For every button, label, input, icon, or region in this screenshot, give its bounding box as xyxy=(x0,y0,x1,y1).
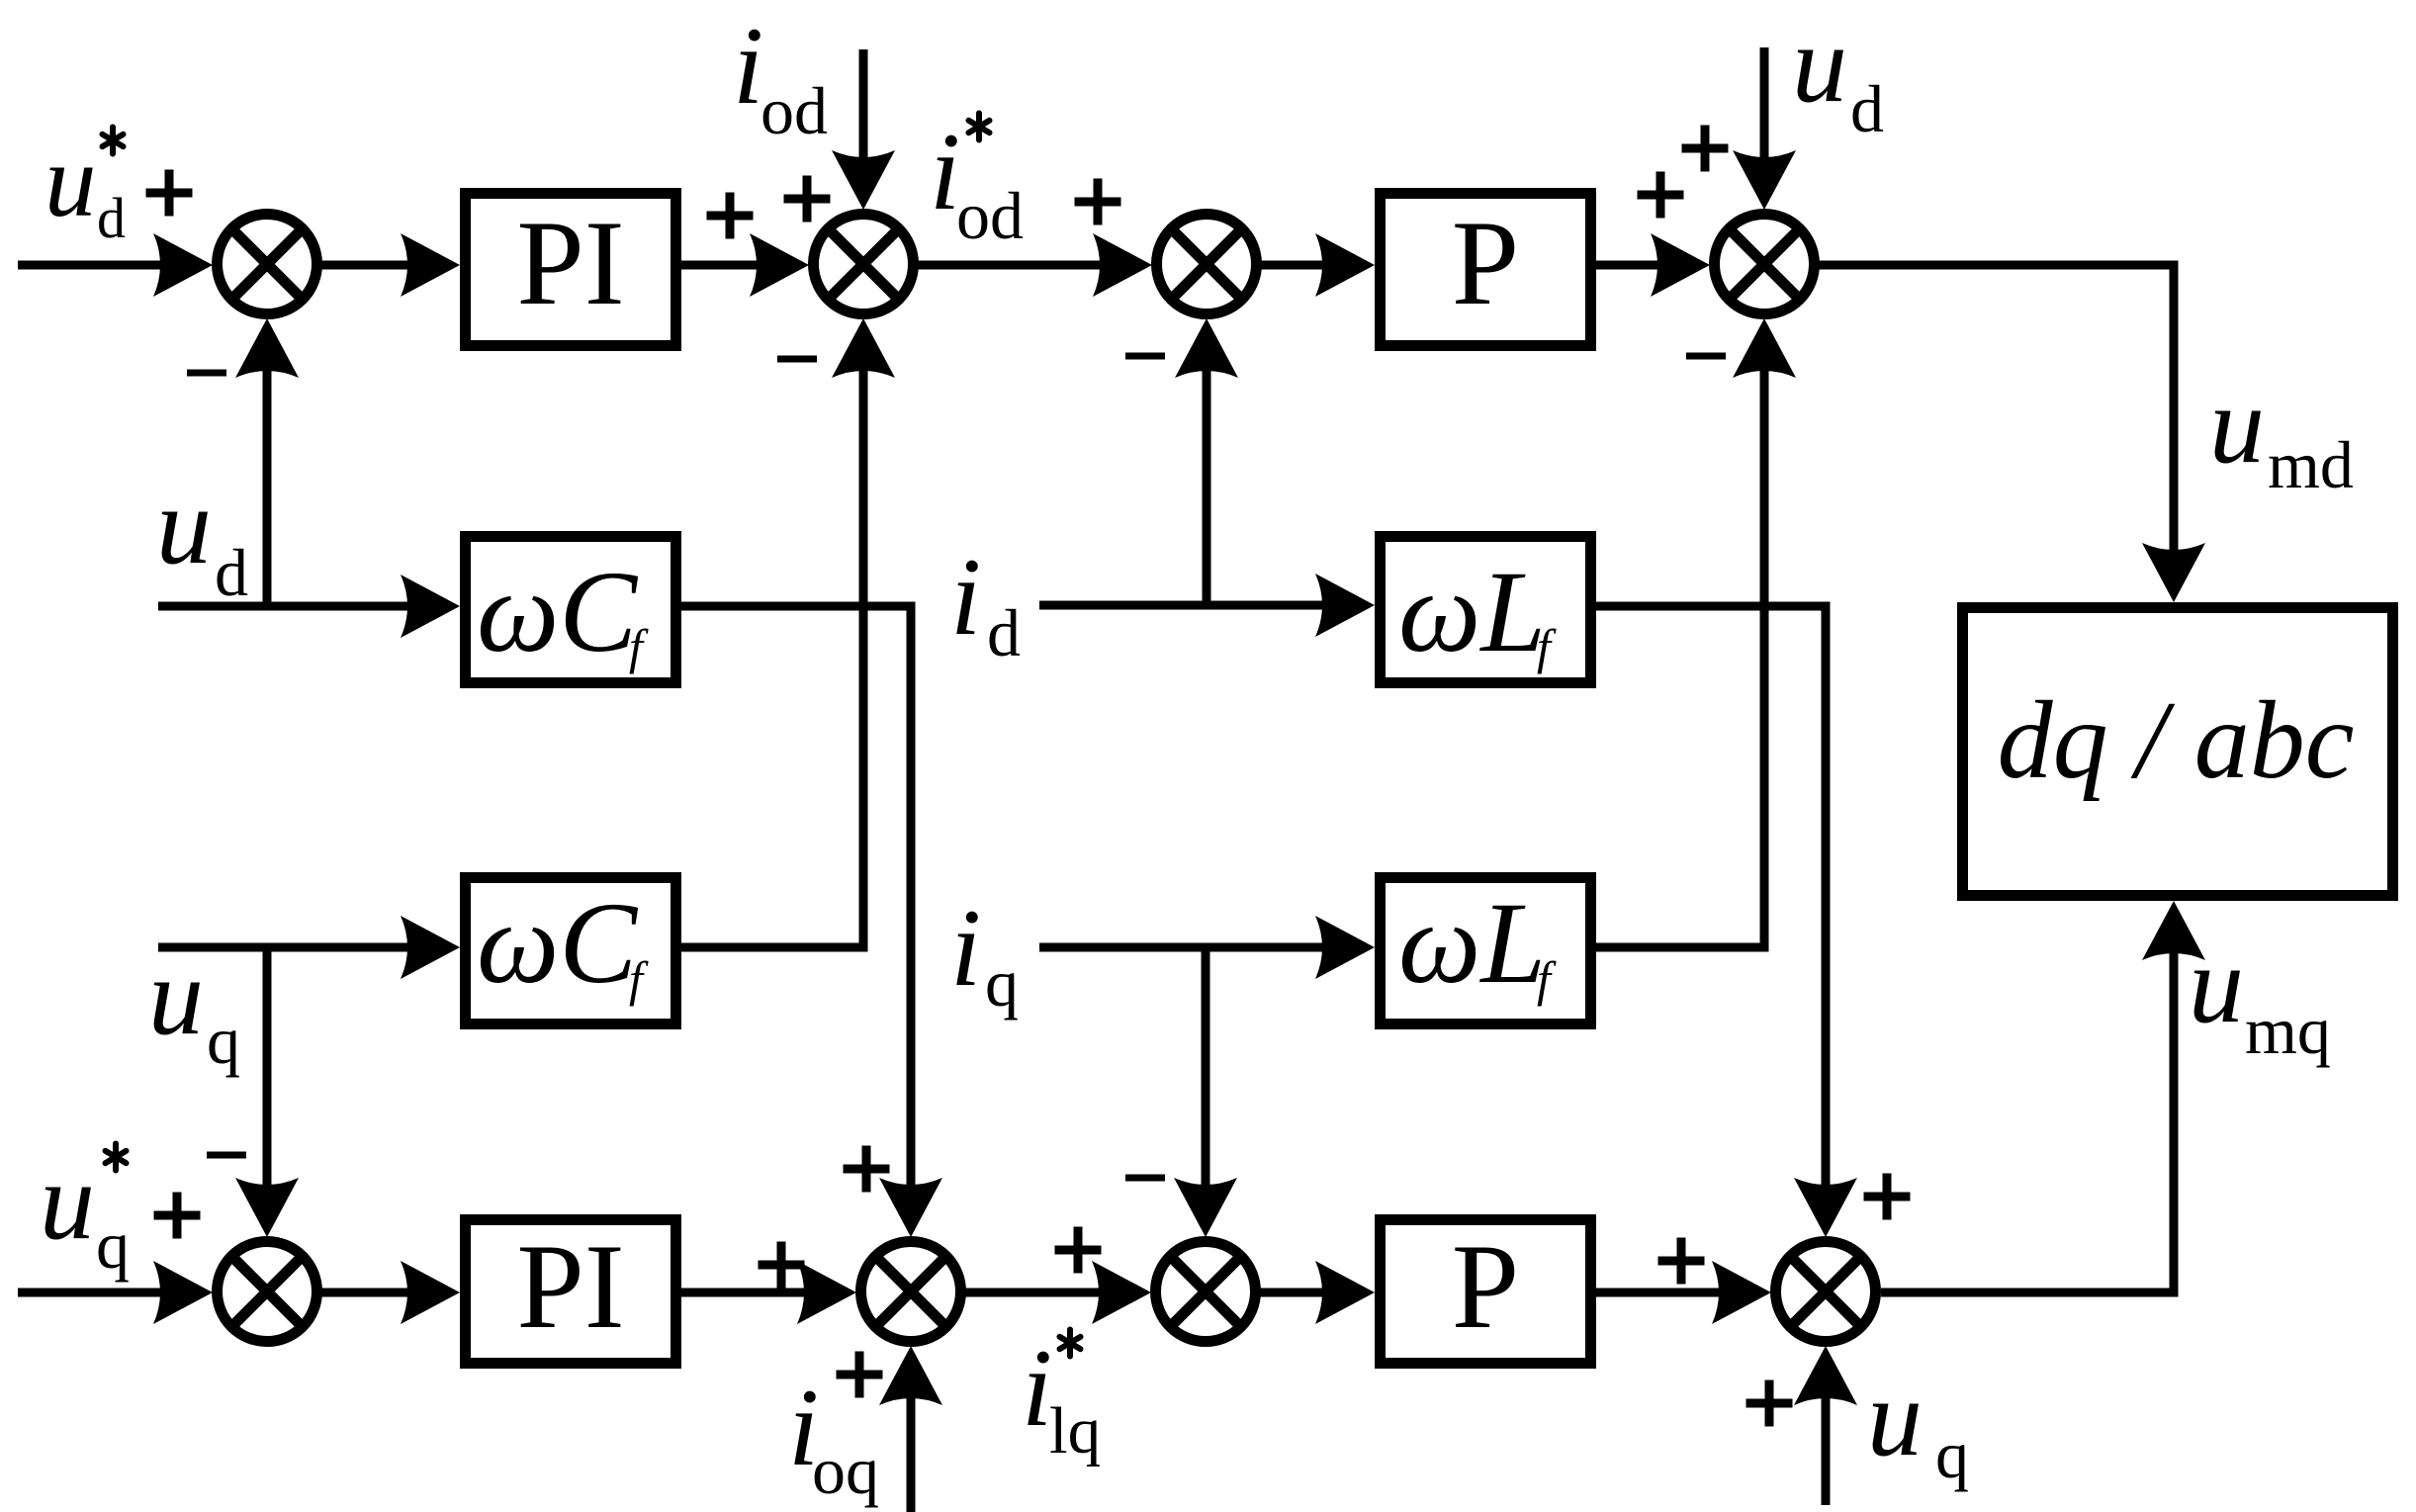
svg-text:P: P xyxy=(1452,1218,1519,1354)
svg-text:od: od xyxy=(956,178,1024,253)
block P (q-axis current controller) xyxy=(1381,1218,1591,1364)
plus sign at i_od input into J2 xyxy=(784,176,831,222)
plus sign at i_oq input into J5 xyxy=(837,1352,883,1398)
wire: u_q* input into J4 xyxy=(18,1261,213,1324)
summing junction J3 xyxy=(1157,215,1257,314)
summing junction J4 xyxy=(218,1242,317,1342)
plus sign at lower P output into J7 xyxy=(1658,1238,1705,1285)
svg-text:od: od xyxy=(761,73,828,148)
label i_d xyxy=(950,536,1021,670)
plus sign at P output into J6 xyxy=(1638,172,1684,219)
label u_md xyxy=(2209,364,2354,502)
plus sign at i_od* input into J3 xyxy=(1075,179,1121,225)
label u_q (row C) xyxy=(148,935,240,1078)
plus sign at i_lq* input into J5b xyxy=(1055,1227,1102,1274)
svg-text:PI: PI xyxy=(516,1218,624,1354)
svg-text:q: q xyxy=(1935,1417,1969,1492)
wire: u_q input arrow into J7 from bottom xyxy=(1794,1346,1857,1505)
svg-text:q: q xyxy=(207,1003,240,1078)
label i_oq xyxy=(788,1367,879,1508)
wire: i_d to upper wLf block xyxy=(1039,574,1375,637)
minus sign at J2 lower input xyxy=(777,358,817,360)
label u_q* xyxy=(40,1140,130,1283)
wire: lower PI output to J5 xyxy=(681,1261,856,1324)
plus sign at wCf input into J5 xyxy=(844,1146,890,1193)
plus sign at u_d* input xyxy=(146,170,193,217)
plus sign at u_q input into J7 xyxy=(1746,1380,1793,1427)
wire: i_d branch up into J3 (minus) xyxy=(1175,318,1238,605)
svg-text:ωC: ωC xyxy=(477,878,638,1008)
svg-text:d: d xyxy=(97,186,126,250)
svg-text:P: P xyxy=(1452,195,1519,330)
label u_d (row B) xyxy=(156,465,248,610)
wire: i_od feed-forward arrow into J2 from top xyxy=(832,49,895,210)
svg-text:d: d xyxy=(215,535,248,610)
svg-text:u: u xyxy=(1867,1357,1923,1479)
svg-text:i: i xyxy=(1022,1327,1052,1450)
wire: P output to J6 xyxy=(1596,233,1710,297)
summing junction J1 xyxy=(218,215,317,314)
label i_lq* xyxy=(1022,1327,1101,1468)
svg-text:ωC: ωC xyxy=(477,547,638,676)
wire: u_q branch down into J4 (minus) xyxy=(235,947,299,1237)
svg-text:dq / abc: dq / abc xyxy=(1998,679,2355,802)
svg-text:lq: lq xyxy=(1049,1394,1101,1468)
block wLf (upper) xyxy=(1381,537,1591,683)
svg-text:q: q xyxy=(96,1207,130,1283)
minus sign at J1 lower input xyxy=(187,372,226,374)
block wCf (lower) xyxy=(466,878,676,1024)
svg-text:md: md xyxy=(2268,427,2354,502)
wire: PI output to J2 xyxy=(681,233,809,297)
wire: lower wCf output up into J2 (minus) xyxy=(681,318,895,947)
svg-text:PI: PI xyxy=(516,195,624,330)
block wCf (upper) xyxy=(466,537,676,683)
label i_od xyxy=(733,5,828,148)
summing junction J2 xyxy=(814,215,914,314)
wire: upper wLf output down into J7 (plus) xyxy=(1596,606,1857,1237)
label u_d* xyxy=(45,123,126,250)
svg-text:u: u xyxy=(40,1140,95,1263)
svg-text:d: d xyxy=(987,595,1021,670)
svg-text:i: i xyxy=(733,5,763,128)
wire: upper wCf output down into J5 (plus) xyxy=(681,606,942,1237)
plus sign at lower PI output into J5 xyxy=(759,1242,805,1289)
wire: i_oq input arrow into J5 from bottom xyxy=(879,1346,942,1512)
block P (d-axis current controller) xyxy=(1381,194,1591,346)
wire: u_d branch up into J1 (minus) xyxy=(235,318,299,606)
label u_mq xyxy=(2189,924,2331,1068)
plus sign at wLf input into J7 xyxy=(1864,1174,1911,1220)
svg-text:i: i xyxy=(950,536,981,659)
wire: u_d* input into J1 xyxy=(18,233,213,297)
svg-text:u: u xyxy=(45,123,97,238)
wire: i_q branch down into J5b (minus) xyxy=(1174,947,1237,1237)
label i_q xyxy=(950,887,1019,1021)
block dq/abc transformation xyxy=(1963,608,2393,896)
plus sign at PI output into J2 xyxy=(707,193,754,239)
minus sign at J5b upper input xyxy=(1125,1177,1165,1179)
minus sign at J4 upper input xyxy=(207,1154,246,1156)
wire: i_q to lower wLf block xyxy=(1039,916,1375,979)
minus sign at J6 lower input xyxy=(1686,355,1726,357)
block PI (d-axis voltage controller) xyxy=(466,194,676,346)
svg-text:u: u xyxy=(2189,924,2244,1046)
minus sign at J3 lower input xyxy=(1125,355,1165,357)
svg-text:i: i xyxy=(950,887,981,1010)
svg-text:q: q xyxy=(985,945,1019,1021)
svg-text:u: u xyxy=(156,465,212,587)
plus sign at u_q* input xyxy=(154,1193,201,1239)
wire: lower wLf output up into J6 (minus) xyxy=(1596,318,1796,947)
wire: J6 output to dq/abc (u_md) xyxy=(1819,265,2205,602)
wire: u_d to upper wCf block xyxy=(158,575,460,638)
block wLf (lower) xyxy=(1381,878,1591,1024)
label i_od* xyxy=(930,111,1024,253)
summing junction J7 xyxy=(1776,1242,1876,1342)
label u_d (top right) xyxy=(1792,3,1884,146)
svg-text:mq: mq xyxy=(2245,993,2331,1068)
svg-text:u: u xyxy=(1792,3,1847,126)
svg-text:u: u xyxy=(148,935,204,1058)
wire: J5b to lower P block xyxy=(1260,1261,1375,1324)
summing junction J6 xyxy=(1715,215,1815,314)
summing junction J5 xyxy=(861,1242,961,1342)
plus sign at u_d input into J6 xyxy=(1682,126,1729,172)
wire: J4 to lower PI block xyxy=(321,1261,460,1324)
svg-text:u: u xyxy=(2209,364,2265,487)
block PI (q-axis voltage controller) xyxy=(466,1218,676,1364)
wire: J1 to PI block xyxy=(321,233,460,297)
wire: u_d feed-forward arrow into J6 from top xyxy=(1733,47,1796,210)
svg-text:oq: oq xyxy=(812,1433,879,1508)
svg-text:d: d xyxy=(1850,71,1884,146)
svg-text:ωL: ωL xyxy=(1398,547,1546,676)
svg-text:ωL: ωL xyxy=(1398,878,1546,1008)
wire: J2 to J3 (i_od* reference) xyxy=(918,233,1152,297)
summing junction J5b xyxy=(1156,1242,1256,1342)
label u_q (bottom right) xyxy=(1867,1357,1969,1492)
wire: u_q to lower wCf block xyxy=(158,916,460,979)
wire: J3 to P block xyxy=(1261,233,1375,297)
wire: J7 output to dq/abc (u_mq) xyxy=(1881,901,2205,1292)
wire: lower P output to J7 xyxy=(1596,1261,1771,1324)
wire: J5 to J5b (i_lq* reference) xyxy=(965,1261,1151,1324)
